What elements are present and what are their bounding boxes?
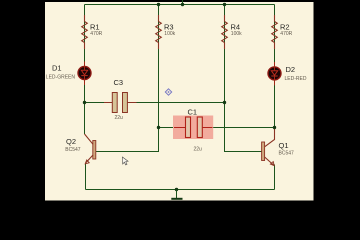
wire left column R1/D1/Q2-collector — [84, 5, 86, 135]
transistor Q1 — [262, 129, 275, 166]
label Q1 — [279, 141, 295, 157]
wire C3 horizontal node A to node B — [85, 102, 225, 104]
svg-text:LED-RED: LED-RED — [285, 76, 307, 82]
wire node B down to Q1 base — [225, 103, 262, 152]
wire Q1 emitter to bottom rail — [274, 165, 276, 190]
wire bottom rail — [86, 189, 275, 191]
junction dot top rail at R4 — [223, 3, 226, 6]
svg-text:470R: 470R — [280, 31, 292, 37]
svg-text:D1: D1 — [52, 64, 62, 73]
resistor R2 — [272, 15, 278, 49]
capacitor C3 — [104, 93, 137, 113]
junction dot node D — [157, 126, 160, 129]
junction dot top rail at R3 — [157, 3, 160, 6]
resistor R1 — [82, 15, 88, 49]
svg-text:BC547: BC547 — [65, 147, 81, 153]
wire C1 horizontal node D to node C — [159, 127, 275, 129]
wire Q2 emitter to bottom rail — [85, 164, 87, 190]
wire VCC stub up — [182, 0, 184, 5]
junction dot node C — [273, 126, 276, 129]
svg-text:Q1: Q1 — [279, 141, 289, 150]
LED D2 — [268, 62, 281, 85]
svg-text:R4: R4 — [231, 22, 241, 31]
schematic sheet background — [45, 2, 314, 201]
junction dot node B — [223, 101, 226, 104]
LED D1 — [78, 62, 91, 86]
svg-text:R2: R2 — [280, 22, 290, 31]
svg-text:LED-GREEN: LED-GREEN — [46, 75, 76, 81]
resistor R3 — [156, 15, 162, 49]
label Q2 — [65, 137, 81, 153]
transistor Q2 — [85, 134, 96, 164]
svg-text:100k: 100k — [164, 31, 175, 37]
svg-text:D2: D2 — [286, 65, 296, 74]
svg-text:470R: 470R — [90, 31, 102, 37]
ground — [171, 190, 182, 199]
junction dot top rail at VCC stub — [181, 3, 184, 6]
svg-text:Q2: Q2 — [66, 137, 76, 146]
label C3 — [114, 78, 124, 121]
selection highlight C1 — [173, 116, 213, 140]
label R2 — [280, 22, 293, 37]
svg-text:22u: 22u — [115, 115, 124, 121]
label R3 — [164, 22, 176, 37]
wire right column R2/D2 — [274, 5, 276, 130]
label D1 — [46, 64, 76, 81]
label R1 — [90, 22, 103, 37]
wire top rail VCC — [85, 4, 275, 6]
junction dot ground node — [175, 188, 178, 191]
junction dot node A — [83, 101, 86, 104]
wire R3 column — [158, 5, 160, 128]
resistor R4 — [222, 15, 228, 49]
svg-text:R1: R1 — [90, 22, 100, 31]
svg-text:100k: 100k — [231, 31, 242, 37]
origin marker cursor — [165, 89, 171, 95]
label R4 — [231, 22, 243, 37]
svg-text:22u: 22u — [194, 146, 203, 152]
svg-text:BC547: BC547 — [279, 151, 295, 157]
svg-text:C1: C1 — [188, 108, 198, 117]
capacitor C1 — [174, 117, 213, 138]
label D2 — [285, 65, 307, 82]
wire R4 column — [224, 5, 226, 103]
svg-text:C3: C3 — [114, 78, 124, 87]
svg-text:R3: R3 — [164, 22, 174, 31]
mouse cursor — [122, 157, 128, 165]
wire node D down to Q2 base — [96, 128, 159, 152]
label C1 — [188, 108, 203, 153]
